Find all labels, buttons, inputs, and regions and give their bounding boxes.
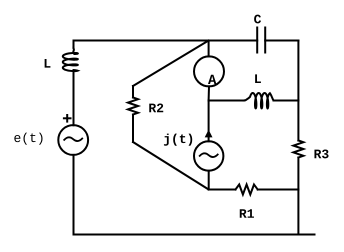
source j(t) circle [194,141,223,170]
wire ammeter top stub [208,41,210,57]
label R1 [240,209,254,218]
source e(t) sine [64,137,82,141]
ammeter circle [194,56,224,86]
resistor R3 [293,141,303,158]
wire R2 stem bottom [132,115,134,143]
label R2 [149,104,163,113]
wire right vertical upper [297,41,299,141]
resistor R1 [236,185,258,195]
wire mid horizontal left [209,100,245,102]
wire diagonal upper [133,41,209,87]
wire left bottom [73,155,75,235]
wire R1 row right [258,189,299,191]
wire left top stub [73,41,75,49]
source e(t) circle [58,125,88,155]
wire R1 row left [209,189,236,191]
inductor L (left, vertical coil) [63,48,78,76]
plus sign [64,115,71,122]
current arrow of j(t) [205,130,213,138]
label C [254,15,261,24]
wire mid horizontal right [274,100,299,102]
inductor L (right, horizontal coil) [244,93,274,108]
wire j branch upper [208,101,210,142]
wire right vertical lower [297,158,299,235]
label j(t) [164,134,192,146]
wire top rail left [74,40,258,42]
wire j bottom [208,171,210,190]
resistor R2 [128,98,138,115]
label L left [45,59,51,68]
label e(t) [14,133,42,145]
wire R2 stem top [132,86,134,98]
wire top rail right [265,40,298,42]
label L right [255,74,261,83]
wire diagonal lower [133,142,209,190]
capacitor C plates [257,28,265,53]
source j(t) sine [200,153,218,157]
label R3 [314,150,328,159]
wire bottom rail [74,234,315,236]
label A [208,75,216,84]
wire ammeter to mid node [208,86,210,100]
wire left mid [73,75,75,125]
